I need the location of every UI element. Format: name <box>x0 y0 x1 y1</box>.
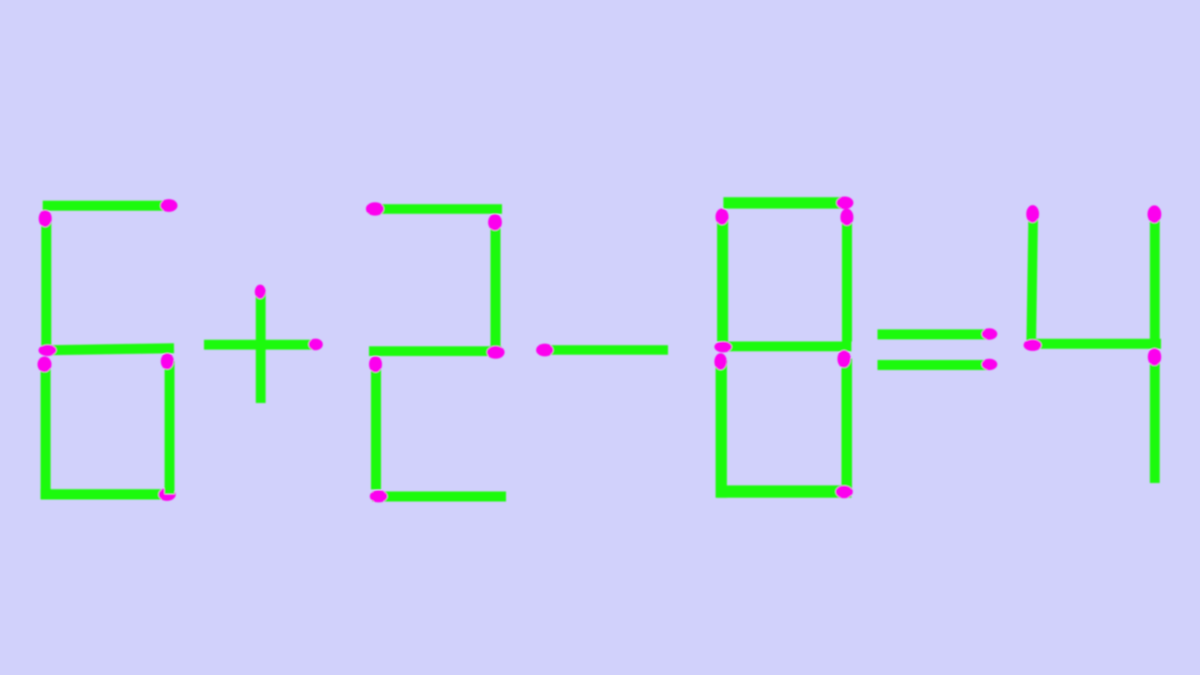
matchstick: equals sign top bar (head right) <box>878 328 998 339</box>
matchstick: digit 8 segment D (bottom horizontal, head right) <box>717 485 853 498</box>
matchstick: digit 8 segment C (lower-right vertical, head top) <box>837 350 852 491</box>
matchstick: digit 2 segment G (middle horizontal, head right) <box>369 346 505 359</box>
matchstick: digit 8 segment F (upper-left vertical, head top) <box>716 209 729 342</box>
matchstick: plus sign vertical (head top) <box>255 285 266 403</box>
matchstick: equals sign bottom bar (head right) <box>878 359 998 370</box>
matchstick: digit 4 segment G (middle horizontal, head left) <box>1024 339 1161 351</box>
matchstick: digit 4 segment C (lower-right vertical, head top) <box>1148 348 1161 483</box>
matchstick: digit 6 segment F (upper-left vertical, head top) <box>39 210 52 347</box>
matchstick: digit 4 segment F (upper-left vertical, head top) <box>1024 205 1039 341</box>
matchstick: plus sign horizontal (head right) <box>204 339 323 351</box>
matchstick: digit 8 segment A (top horizontal, head right) <box>723 197 853 210</box>
matchstick: digit 8 segment E (lower-left vertical, head top) <box>714 353 727 497</box>
matchstick: digit 8 segment G (middle horizontal, head left) <box>714 341 851 352</box>
matchstick: digit 2 segment E (lower-left vertical, head top) <box>369 356 382 489</box>
matchstick: digit 4 segment B (upper-right vertical, head top) <box>1148 205 1162 347</box>
matchstick: digit 6 segment D (bottom horizontal, head right) <box>41 488 176 501</box>
matchstick: digit 6 segment E (lower-left vertical, head top) <box>38 357 52 500</box>
matchstick: minus sign horizontal (head left) <box>536 344 668 357</box>
matchstick: digit 6 segment C (lower-right vertical, head top) <box>161 353 175 494</box>
matchstick: digit 6 segment G (middle horizontal, head left) <box>38 343 174 357</box>
matchstick: digit 2 segment A (top horizontal, head left) <box>366 202 502 215</box>
matchstick: digit 6 segment A (top horizontal, head right) <box>43 199 178 212</box>
matchstick: digit 2 segment B (upper-right vertical, head top) <box>488 214 502 347</box>
matchstick: digit 8 segment B (upper-right vertical, head top) <box>840 209 853 342</box>
matchstick: digit 2 segment D (bottom horizontal, head left) <box>370 490 506 502</box>
